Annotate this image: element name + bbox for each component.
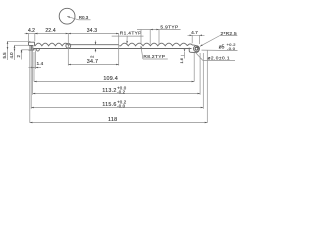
wire ext flat-end vertical	[118, 34, 120, 66]
wire ext circle vertical	[67, 34, 69, 66]
node notch	[36, 49, 39, 52]
label R0.3	[67, 16, 78, 19]
dim 4.0	[15, 44, 30, 46]
label R8.2TYP	[141, 46, 143, 59]
dim 118	[30, 122, 208, 124]
svg-text:2*R2.5: 2*R2.5	[221, 31, 237, 37]
wire ext left verticals	[29, 50, 31, 123]
label 2*R2.5	[200, 36, 220, 47]
dim 115.6	[31, 107, 203, 109]
wire left leg	[29, 45, 34, 50]
label phi5 +0.2/-0.0	[202, 49, 238, 52]
node detail-marker circle	[66, 43, 71, 48]
dim 2 left	[22, 49, 36, 51]
dim 2 mid	[95, 41, 97, 45]
dim 5.5	[8, 40, 31, 42]
hole phi5	[194, 46, 200, 52]
label phi2.0+-0.1	[195, 52, 203, 61]
dim 5.9TYP	[137, 29, 181, 31]
node detail-balloon	[59, 8, 75, 24]
svg-text:113.2: 113.2	[102, 88, 116, 94]
svg-text:-0.2: -0.2	[117, 89, 126, 94]
svg-text:4.2: 4.2	[28, 28, 35, 34]
dim 34.3	[68, 33, 118, 35]
hole phi2.0	[195, 47, 198, 50]
svg-text:115.6: 115.6	[102, 102, 116, 108]
wire inner bottom line	[34, 48, 192, 50]
dim 109.4	[34, 81, 194, 83]
svg-text:R1.4TYP: R1.4TYP	[120, 31, 142, 37]
dim 4.2	[25, 33, 38, 35]
svg-text:4.7: 4.7	[191, 30, 198, 36]
svg-text:R8.2TYP: R8.2TYP	[143, 54, 165, 60]
dim 1.4	[29, 67, 42, 69]
wire right nose and bead	[187, 44, 199, 53]
dim 22.4	[35, 33, 69, 35]
dim 113.2	[33, 93, 201, 95]
svg-text:5.9TYP: 5.9TYP	[160, 25, 178, 31]
wire left end box	[29, 42, 35, 46]
wire flat recess top	[68, 44, 118, 46]
svg-text:ø2.0±0.1: ø2.0±0.1	[208, 56, 231, 62]
svg-text:-0.0: -0.0	[117, 103, 126, 108]
svg-text:ø5: ø5	[219, 44, 225, 50]
svg-text:1.4: 1.4	[37, 61, 44, 67]
svg-text:5.5: 5.5	[2, 52, 7, 59]
svg-text:34.3: 34.3	[87, 28, 98, 34]
wire wavy top right section	[119, 43, 187, 46]
svg-text:109.4: 109.4	[103, 76, 118, 82]
wire wavy top left section	[35, 43, 69, 46]
svg-text:4.0: 4.0	[9, 52, 14, 59]
svg-text:118: 118	[108, 117, 117, 123]
dim right small	[184, 52, 186, 59]
svg-text:1.6: 1.6	[179, 58, 184, 63]
dim 4.7	[188, 34, 205, 36]
svg-text:R0.3: R0.3	[79, 15, 89, 20]
wire ext right verticals	[193, 53, 195, 82]
svg-text:22.4: 22.4	[45, 28, 56, 34]
svg-text:-0.0: -0.0	[227, 46, 236, 51]
label R1.4TYP	[112, 35, 144, 37]
svg-text:34.7: 34.7	[87, 59, 99, 65]
dim 34.7	[68, 64, 118, 66]
